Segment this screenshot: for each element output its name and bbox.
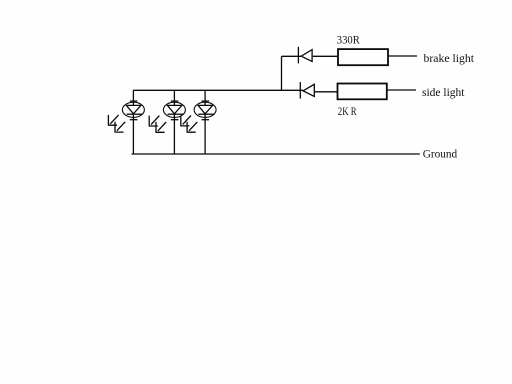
- resistor R2: [338, 84, 387, 100]
- arrow emission 1 LED2: [149, 116, 160, 126]
- arrow emission 2 LED3: [187, 122, 198, 132]
- wire: elbow to D1 cathode: [282, 55, 302, 57]
- LED D4 (middle): [149, 90, 186, 154]
- tick cathode LED2: [171, 119, 179, 121]
- svg-text:2K R: 2K R: [338, 104, 357, 118]
- triangle LED2: [167, 105, 182, 113]
- svg-text:side light: side light: [422, 85, 465, 99]
- triangle LED1: [126, 105, 140, 113]
- cathode bar LED1: [127, 113, 143, 115]
- diode D2 (cathode bar + triangle, pointing left): [300, 82, 314, 99]
- tick cathode LED1: [130, 119, 138, 121]
- LED D5 (rightmost): [180, 90, 216, 154]
- wire: LED anode bus y=90: [133, 89, 281, 91]
- svg-text:brake light: brake light: [424, 51, 475, 65]
- cathode bar LED2: [168, 113, 184, 115]
- tick anode LED3: [202, 100, 210, 102]
- wire: R2 to side light terminal: [387, 89, 416, 91]
- resistor R1: [338, 49, 388, 65]
- svg-text:Ground: Ground: [423, 146, 458, 160]
- ellipse body LED3: [194, 102, 216, 117]
- wire: cathode lead LED1 to ground: [132, 114, 134, 154]
- diode D1 (cathode bar + triangle, pointing left): [298, 47, 312, 64]
- wire: cathode lead LED2 to ground: [173, 114, 175, 154]
- arrow emission 1 LED1: [108, 115, 119, 125]
- arrow emission 2 LED1: [115, 122, 126, 132]
- wire: anode lead LED2: [173, 90, 175, 105]
- tick anode LED1: [130, 100, 138, 102]
- wire: R1 to brake light terminal: [388, 55, 417, 57]
- wire: ground bus: [132, 153, 420, 155]
- arrow emission 2 LED2: [156, 122, 167, 132]
- wire: D2 to R2: [314, 91, 337, 93]
- LED D3 (leftmost): [108, 90, 144, 154]
- ellipse body LED1: [122, 102, 144, 117]
- cathode bar LED3: [198, 113, 214, 115]
- wire: vertical riser to top diode: [281, 56, 283, 90]
- tick cathode LED3: [202, 119, 210, 121]
- triangle LED3: [198, 105, 213, 113]
- wire: anode lead LED3: [204, 90, 206, 105]
- ellipse body LED2: [163, 102, 185, 117]
- tick anode LED2: [171, 100, 179, 102]
- wire: D1 to R1: [313, 55, 338, 57]
- wire: cathode lead LED3 to ground: [204, 114, 206, 154]
- arrow emission 1 LED3: [180, 116, 191, 126]
- svg-text:330R: 330R: [337, 33, 360, 47]
- wire: bus continues to D2 cathode: [282, 89, 304, 91]
- node: junction bus to diodes at (281.5,90.3): [281, 89, 283, 91]
- wire: anode lead LED1: [132, 90, 134, 105]
